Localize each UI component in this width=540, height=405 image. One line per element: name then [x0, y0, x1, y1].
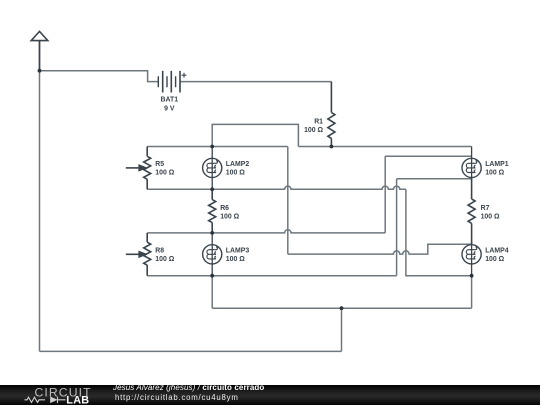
wire [385, 155, 471, 157]
svg-text:100 Ω: 100 Ω [220, 214, 239, 221]
svg-text:100 Ω: 100 Ω [304, 127, 323, 134]
svg-text:100 Ω: 100 Ω [155, 256, 174, 263]
wire [287, 147, 289, 255]
svg-text:R1: R1 [314, 118, 323, 125]
wire [40, 71, 159, 82]
wire [212, 307, 471, 309]
wire [211, 276, 213, 309]
svg-text:100 Ω: 100 Ω [226, 170, 245, 177]
svg-text:LAMP2: LAMP2 [226, 161, 250, 168]
svg-text:R6: R6 [220, 205, 229, 212]
wire [396, 179, 398, 276]
wire [406, 189, 472, 275]
footer bar [0, 385, 540, 405]
resistor R8 (rheostat) [146, 233, 148, 242]
wire [147, 275, 396, 277]
battery BAT1 [158, 71, 186, 93]
lamp LAMP3 [203, 233, 222, 276]
resistor R5 (rheostat) [146, 147, 148, 157]
resistor R1 [330, 82, 332, 113]
wire [212, 124, 298, 146]
svg-text:LAMP4: LAMP4 [485, 247, 509, 254]
node C [330, 145, 334, 149]
svg-text:LAB: LAB [66, 394, 89, 405]
svg-text:100 Ω: 100 Ω [155, 170, 174, 177]
wire [39, 41, 41, 352]
wire [40, 350, 342, 352]
wire [471, 276, 473, 309]
svg-text:100 Ω: 100 Ω [481, 214, 500, 221]
wire [288, 244, 472, 254]
resistor R6 [211, 189, 213, 199]
CircuitLab logo [15, 385, 115, 405]
svg-text:9 V: 9 V [164, 106, 175, 113]
svg-text:R5: R5 [155, 161, 164, 168]
wire [147, 146, 288, 148]
svg-text:R8: R8 [155, 247, 164, 254]
node B [210, 145, 214, 149]
svg-text:LAMP3: LAMP3 [226, 247, 250, 254]
svg-text:R7: R7 [481, 205, 490, 212]
wire [384, 156, 386, 233]
wire [180, 81, 331, 83]
wire [147, 186, 406, 189]
node H [340, 306, 344, 310]
wire [341, 308, 343, 351]
wire [147, 230, 385, 233]
node A [38, 69, 42, 73]
lamp LAMP1 [462, 147, 481, 181]
node G [470, 274, 474, 278]
svg-text:100 Ω: 100 Ω [485, 256, 504, 263]
node F [210, 274, 214, 278]
antenna [31, 31, 48, 70]
lamp LAMP4 [462, 242, 481, 276]
resistor R7 [471, 178, 473, 200]
lamp LAMP2 [203, 147, 222, 190]
svg-text:100 Ω: 100 Ω [485, 170, 504, 177]
svg-text:LAMP1: LAMP1 [485, 161, 509, 168]
svg-text:BAT1: BAT1 [161, 97, 179, 104]
wire [298, 146, 471, 148]
wire [397, 178, 472, 180]
svg-text:100 Ω: 100 Ω [226, 256, 245, 263]
node E [210, 231, 214, 235]
node D [210, 187, 214, 191]
credit text [113, 383, 264, 392]
